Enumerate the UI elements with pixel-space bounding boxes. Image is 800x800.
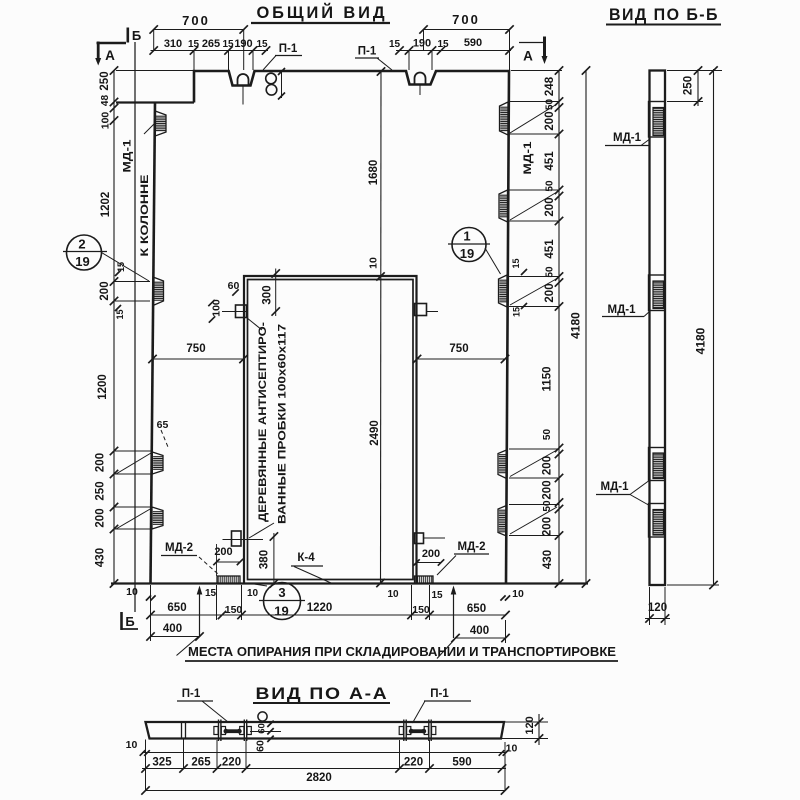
B-B wood block 2	[649, 275, 666, 311]
dimension 380	[259, 532, 279, 587]
svg-text:250: 250	[683, 76, 695, 95]
svg-text:380: 380	[259, 550, 271, 569]
wood block МД-2 right edge lower 1	[498, 450, 507, 479]
svg-text:15: 15	[437, 39, 449, 50]
A-A division joint	[181, 722, 183, 739]
wooden plug top-left	[236, 305, 247, 318]
svg-text:19: 19	[460, 246, 474, 261]
svg-text:1202: 1202	[100, 192, 112, 218]
overall dimension 4180 (general view)	[569, 66, 591, 587]
A-A extension lines	[145, 740, 147, 792]
caption leader right	[437, 640, 455, 659]
svg-text:250: 250	[99, 71, 111, 90]
left ladder ticks	[110, 66, 118, 587]
A-A fitting П-1 right	[399, 720, 436, 742]
svg-text:750: 750	[186, 343, 205, 355]
right ladder extension lines	[509, 101, 559, 103]
svg-text:ОБЩИЙ ВИД: ОБЩИЙ ВИД	[257, 3, 388, 22]
svg-text:60: 60	[257, 723, 268, 734]
B-B top extension line	[667, 70, 722, 72]
label МД-2 right	[437, 541, 489, 575]
svg-text:К-4: К-4	[297, 552, 315, 564]
svg-text:190: 190	[234, 38, 252, 50]
svg-text:1150: 1150	[542, 367, 554, 392]
callout circle 2/19	[63, 235, 149, 281]
svg-text:МД-1: МД-1	[613, 132, 642, 144]
svg-text:1680: 1680	[368, 160, 380, 186]
svg-text:50: 50	[545, 180, 556, 192]
svg-text:1220: 1220	[307, 602, 333, 614]
dimension 200 bottom-right block	[413, 548, 444, 566]
B-B dimension 120	[645, 587, 670, 625]
left ladder extension lines	[114, 281, 150, 283]
support point arrow left	[197, 586, 203, 637]
svg-text:МД-2: МД-2	[458, 541, 486, 553]
section mark Б bottom	[122, 612, 139, 630]
svg-text:19: 19	[274, 604, 288, 619]
A-A dimension 120	[501, 714, 548, 745]
B-B dimension 250	[667, 66, 703, 106]
svg-text:50: 50	[545, 99, 556, 111]
svg-text:ВАННЫЕ ПРОБКИ 100х60х117: ВАННЫЕ ПРОБКИ 100х60х117	[277, 324, 289, 524]
dimension 400 right	[451, 620, 509, 643]
svg-text:300: 300	[262, 285, 274, 304]
svg-text:400: 400	[470, 625, 489, 637]
small 10 gap ticks	[146, 595, 151, 600]
svg-text:П-1: П-1	[182, 688, 201, 700]
dimension 700 top-left	[150, 13, 248, 34]
svg-text:МД-1: МД-1	[601, 481, 630, 493]
svg-text:325: 325	[152, 757, 172, 769]
svg-text:Б: Б	[132, 28, 141, 43]
svg-text:150: 150	[412, 604, 430, 616]
svg-text:ВИД ПО А-А: ВИД ПО А-А	[256, 685, 389, 703]
svg-text:А: А	[523, 49, 533, 64]
svg-text:200: 200	[544, 283, 556, 302]
svg-text:П-1: П-1	[279, 43, 298, 55]
svg-text:10: 10	[506, 743, 518, 755]
lifting loop П-1 in notch 1	[238, 74, 249, 86]
svg-text:МД-1: МД-1	[608, 304, 637, 316]
dimension 400 left	[146, 620, 203, 641]
B-B wood block 1	[649, 102, 666, 138]
svg-text:590: 590	[464, 37, 482, 49]
svg-text:2820: 2820	[306, 772, 332, 784]
svg-text:1: 1	[463, 229, 470, 244]
svg-text:10: 10	[368, 257, 380, 269]
label П-1 left with leader	[263, 43, 302, 70]
wooden plug top-right	[415, 304, 427, 316]
svg-text:МЕСТА ОПИРАНИЯ ПРИ СКЛАДИРОВАН: МЕСТА ОПИРАНИЯ ПРИ СКЛАДИРОВАНИИ И ТРАНС…	[188, 644, 616, 659]
A-A dimension 2820	[141, 772, 509, 795]
svg-text:430: 430	[95, 548, 107, 567]
svg-text:МД-1: МД-1	[122, 140, 134, 173]
panel top-left step	[116, 101, 194, 103]
B-B label МД-1 #1	[605, 132, 651, 146]
panel outline (general view)	[194, 71, 509, 584]
section mark А top-left	[95, 42, 126, 66]
wood block left edge lower 2	[152, 507, 163, 529]
wood block МД-1 right edge 1	[500, 102, 509, 135]
wood block left edge (callout 2/19)	[153, 277, 164, 306]
svg-text:50: 50	[545, 266, 556, 278]
svg-text:ДЕРЕВЯННЫЕ АНТИСЕПТИРО-: ДЕРЕВЯННЫЕ АНТИСЕПТИРО-	[257, 322, 269, 522]
svg-text:2: 2	[78, 237, 85, 252]
dimension 200 bottom-left block	[213, 544, 243, 576]
svg-text:П-1: П-1	[430, 688, 449, 700]
left ladder diagonal pointers	[116, 453, 151, 474]
leader plug to note	[247, 318, 263, 331]
svg-text:4180: 4180	[694, 327, 708, 354]
A-A label П-1 right	[413, 688, 472, 723]
dimension row 310 15 265 15 190 15	[150, 46, 271, 54]
svg-text:200: 200	[542, 517, 554, 536]
label МД-2 left	[161, 542, 218, 574]
wooden plug bottom-left	[232, 531, 242, 546]
B-B bar outline	[650, 71, 666, 586]
svg-text:400: 400	[163, 623, 182, 635]
svg-text:451: 451	[544, 151, 556, 171]
top edge extension left	[116, 70, 194, 72]
support block МД-2 bottom right	[415, 576, 434, 584]
svg-text:А: А	[105, 48, 115, 63]
vent hole circles below top edge	[266, 73, 277, 84]
svg-text:50: 50	[542, 500, 553, 512]
svg-text:15: 15	[431, 590, 443, 601]
svg-text:150: 150	[225, 604, 243, 616]
svg-text:15: 15	[205, 588, 217, 599]
section mark А top-right	[519, 37, 548, 65]
svg-text:200: 200	[544, 111, 556, 130]
svg-text:МД-2: МД-2	[165, 542, 193, 554]
svg-text:Б: Б	[125, 614, 134, 629]
svg-text:10: 10	[387, 589, 399, 600]
svg-text:3: 3	[278, 585, 285, 600]
svg-text:15: 15	[511, 258, 521, 268]
A-A plug circle and 60/60	[258, 712, 267, 721]
svg-text:10: 10	[126, 739, 138, 751]
wood block МД-1 left edge top	[155, 111, 166, 136]
svg-text:15: 15	[222, 39, 234, 50]
svg-text:К КОЛОННЕ: К КОЛОННЕ	[139, 175, 151, 257]
svg-text:15: 15	[188, 39, 200, 50]
svg-text:120: 120	[648, 602, 667, 614]
svg-text:48: 48	[100, 95, 111, 107]
svg-text:50: 50	[542, 429, 553, 441]
wood block МД-2 right edge lower 2	[498, 506, 507, 537]
svg-text:700: 700	[182, 13, 210, 28]
dimension row 15 190 15 590	[395, 46, 513, 54]
svg-text:15: 15	[389, 39, 401, 50]
svg-text:200: 200	[95, 508, 107, 527]
svg-text:10: 10	[512, 588, 524, 600]
wooden plug bottom-right	[415, 533, 424, 544]
B-B dimension 4180	[667, 66, 719, 589]
A-A fitting П-1 left	[214, 720, 251, 742]
column axis line	[134, 42, 136, 612]
svg-text:10: 10	[126, 586, 138, 598]
title: Общий вид	[251, 3, 390, 23]
lifting loop П-1 in notch 2	[415, 73, 426, 85]
dimension 300	[262, 269, 280, 317]
svg-text:750: 750	[449, 343, 468, 355]
svg-text:200: 200	[99, 281, 111, 300]
svg-text:10: 10	[247, 588, 259, 599]
svg-text:65: 65	[157, 419, 169, 431]
right ladder diagonal pointers	[510, 104, 557, 133]
svg-text:15: 15	[512, 307, 522, 317]
title: Вид по Б-Б	[606, 6, 721, 25]
wood block left edge lower 1	[152, 452, 163, 474]
title: Вид по А-А	[253, 685, 390, 703]
svg-text:15: 15	[115, 309, 125, 319]
svg-text:590: 590	[452, 757, 471, 769]
right ladder ticks	[555, 66, 563, 587]
svg-text:200: 200	[95, 453, 107, 472]
caption: места опирания...	[185, 644, 618, 661]
dimension 1680 / 10 / 2490	[376, 67, 385, 587]
inner opening outer rectangle	[244, 276, 417, 584]
svg-text:430: 430	[542, 550, 554, 569]
svg-text:МД-1: МД-1	[522, 142, 534, 175]
svg-text:200: 200	[422, 548, 440, 560]
caption leader left	[177, 637, 199, 656]
svg-text:200: 200	[542, 480, 554, 499]
A-A dimension rows	[142, 752, 506, 754]
section mark Б top	[128, 28, 141, 44]
svg-text:265: 265	[202, 38, 220, 50]
svg-text:650: 650	[467, 603, 486, 615]
left dimension ladder line	[113, 71, 115, 584]
svg-text:650: 650	[167, 602, 186, 614]
label К-4	[291, 552, 331, 583]
vent hole mini dimension	[278, 68, 285, 100]
leader note to 380 line	[249, 523, 274, 538]
B-B label МД-1 #2	[602, 304, 650, 317]
svg-text:200: 200	[214, 546, 232, 558]
inner opening inner line	[248, 280, 414, 580]
dimension 750 left	[148, 343, 247, 363]
svg-text:2490: 2490	[369, 420, 381, 446]
A-A label П-1 left	[177, 688, 228, 722]
svg-text:700: 700	[452, 12, 480, 27]
dimension 700 top-right	[419, 12, 513, 34]
A-A bar outline	[146, 722, 505, 739]
svg-text:265: 265	[191, 757, 211, 769]
svg-text:60: 60	[255, 740, 267, 752]
bottom dimension row 1	[146, 611, 509, 619]
svg-text:4180: 4180	[569, 312, 583, 339]
panel bottom edge	[111, 582, 588, 584]
svg-text:1200: 1200	[97, 374, 109, 400]
svg-text:19: 19	[75, 254, 89, 269]
panel left edge	[151, 103, 156, 584]
callout circle 1/19	[448, 228, 501, 275]
svg-text:200: 200	[544, 197, 556, 216]
svg-text:451: 451	[544, 239, 556, 259]
svg-text:220: 220	[222, 757, 241, 769]
svg-text:100: 100	[100, 112, 112, 130]
svg-text:15: 15	[256, 39, 268, 50]
wood block right edge (callout 1/19)	[499, 275, 508, 307]
svg-text:220: 220	[404, 757, 423, 769]
wood block МД-1 right edge 2	[499, 190, 508, 222]
svg-text:200: 200	[542, 456, 554, 475]
svg-text:310: 310	[164, 38, 182, 50]
support block МД-2 bottom left	[217, 576, 240, 584]
svg-text:248: 248	[544, 76, 556, 96]
svg-text:190: 190	[413, 38, 431, 50]
right dimension ladder line	[558, 71, 560, 584]
svg-text:250: 250	[95, 481, 107, 500]
B-B wood block 4	[649, 504, 666, 538]
svg-text:ВИД ПО Б-Б: ВИД ПО Б-Б	[609, 6, 719, 24]
top edge extension right	[511, 70, 562, 72]
svg-text:120: 120	[524, 716, 536, 734]
bottom row 1 extension stubs	[150, 585, 152, 620]
label П-1 right with leader	[355, 46, 392, 71]
support point arrow right	[451, 586, 457, 639]
B-B wood block 3	[649, 448, 666, 481]
svg-text:П-1: П-1	[358, 46, 377, 58]
B-B label МД-1 #3 with fork	[596, 481, 649, 505]
dimension 750 right	[413, 343, 509, 363]
callout circle 3/19	[251, 583, 305, 620]
